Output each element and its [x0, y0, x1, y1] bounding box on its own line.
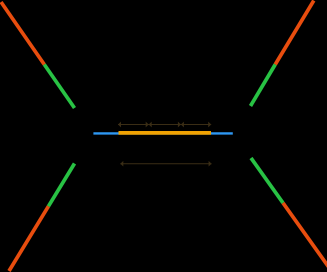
ray top-right green segment	[251, 65, 276, 107]
central orange bar	[119, 131, 212, 135]
arrowhead pair at second third (bowtie)	[178, 122, 184, 128]
arrowhead left end (points left)	[118, 122, 121, 128]
arrowhead left end (points left)	[120, 161, 123, 167]
ray bottom-right red segment	[283, 203, 327, 268]
bottom dimension shaft	[120, 163, 211, 165]
ray bottom-right green segment	[251, 158, 283, 203]
central blue line	[93, 132, 232, 134]
top dimension arrows (three equal spans)	[118, 122, 211, 128]
arrowhead right end (points right)	[208, 122, 211, 128]
ray bottom-left red segment	[9, 206, 48, 271]
ray top-left green segment	[44, 65, 74, 109]
ray top-right red segment	[275, 1, 314, 65]
arrowhead pair at first third (bowtie)	[146, 122, 152, 128]
top dimension shaft	[118, 124, 211, 126]
bottom dimension arrow	[120, 161, 211, 167]
ray bottom-left green segment	[48, 164, 74, 207]
arrowhead right end (points right)	[209, 161, 212, 167]
ray top-left red segment	[1, 2, 44, 65]
